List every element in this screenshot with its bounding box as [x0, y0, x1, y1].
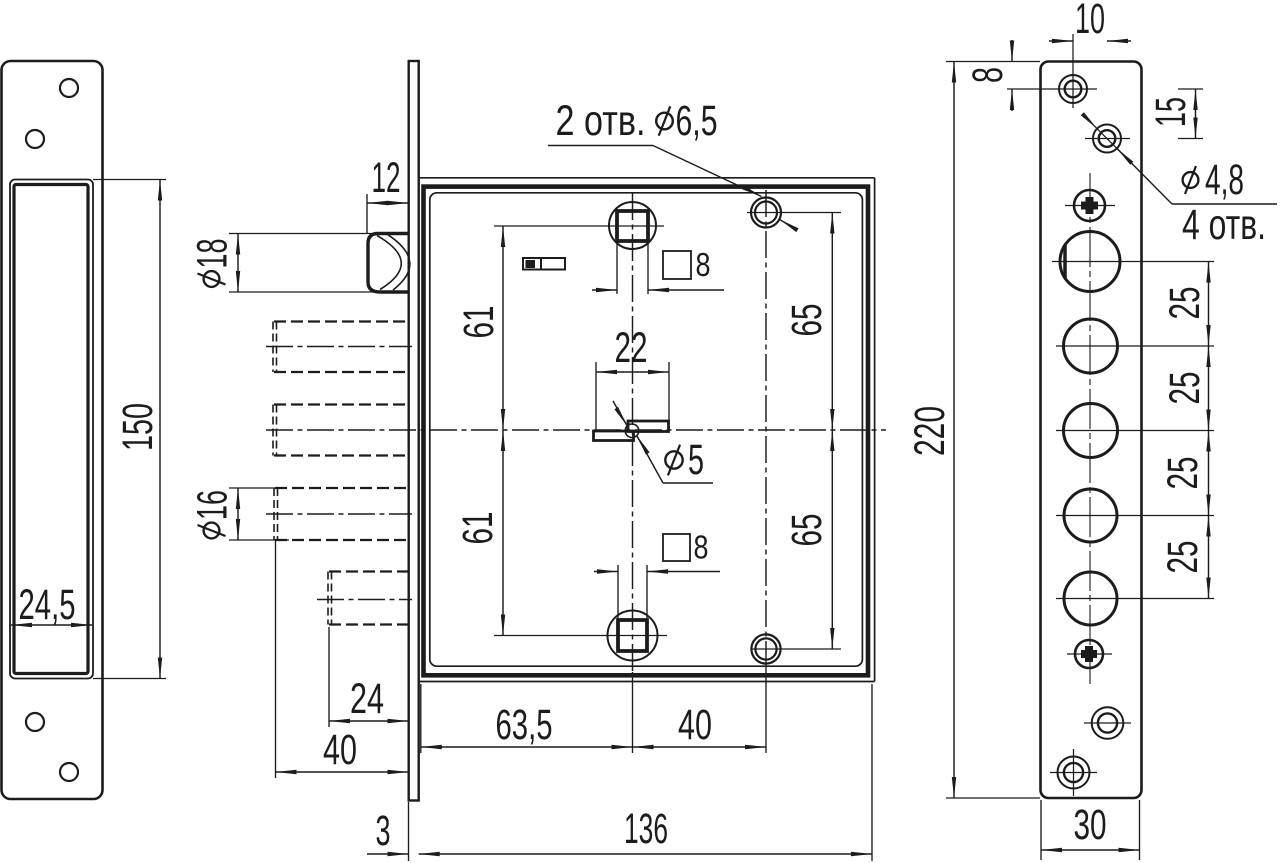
svg-text:8: 8 [694, 528, 709, 565]
svg-text:40: 40 [323, 726, 357, 774]
svg-text:25: 25 [1161, 372, 1209, 405]
svg-text:63,5: 63,5 [496, 701, 553, 749]
svg-text:61: 61 [455, 306, 503, 339]
svg-text:25: 25 [1159, 541, 1207, 574]
svg-text:5: 5 [688, 436, 704, 484]
svg-text:8: 8 [696, 246, 711, 283]
svg-text:4 отв.: 4 отв. [1182, 201, 1266, 249]
svg-text:22: 22 [615, 324, 648, 372]
svg-text:61: 61 [454, 512, 502, 545]
svg-text:220: 220 [906, 406, 954, 456]
svg-text:136: 136 [624, 805, 668, 853]
svg-text:8: 8 [964, 67, 1012, 83]
svg-text:25: 25 [1159, 457, 1207, 490]
svg-text:10: 10 [1075, 0, 1105, 43]
svg-text:24,5: 24,5 [19, 581, 76, 629]
svg-text:2 отв.: 2 отв. [556, 97, 646, 145]
svg-text:30: 30 [1074, 801, 1107, 849]
svg-text:15: 15 [1147, 97, 1195, 127]
svg-text:25: 25 [1161, 287, 1209, 320]
svg-text:40: 40 [678, 701, 712, 749]
svg-text:24: 24 [350, 675, 384, 723]
svg-text:150: 150 [114, 403, 162, 451]
svg-text:4,8: 4,8 [1205, 156, 1244, 204]
svg-text:6,5: 6,5 [676, 97, 718, 145]
svg-text:65: 65 [783, 514, 831, 547]
svg-text:3: 3 [376, 807, 391, 855]
svg-text:16: 16 [188, 490, 236, 520]
svg-text:12: 12 [372, 154, 401, 202]
svg-text:65: 65 [783, 304, 831, 337]
svg-text:18: 18 [188, 239, 236, 269]
